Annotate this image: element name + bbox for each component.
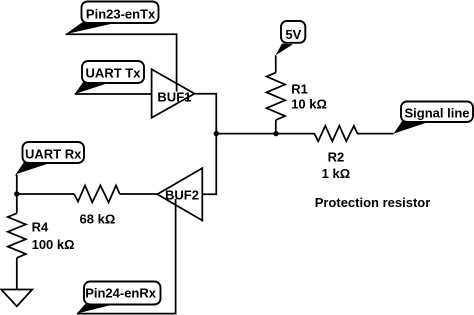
svg-text:10 kΩ: 10 kΩ [291, 97, 327, 112]
net flag Pin23-enTx [66, 2, 159, 35]
svg-text:Protection resistor: Protection resistor [315, 195, 431, 210]
wire 5V flag to R1 top [275, 55, 277, 72]
wire R1 bottom to node A rail [275, 120, 277, 134]
net flag UART Rx [16, 142, 84, 174]
resistor R4 100k zigzag [8, 213, 26, 258]
svg-text:R1: R1 [291, 81, 308, 96]
wire node A down to BUF2 input [202, 134, 216, 195]
svg-text:R2: R2 [328, 150, 345, 165]
node B junction dot [14, 191, 19, 196]
svg-text:Pin24-enRx: Pin24-enRx [85, 286, 157, 301]
wire BUF2 output to 68k resistor [120, 193, 158, 195]
wire net enTx: flag to BUF1 enable [66, 34, 177, 91]
net flag 5V [276, 21, 306, 55]
resistor R2 1k zigzag [314, 126, 357, 141]
wire BUF2 enable down to bottom rail [77, 199, 176, 314]
svg-text:1 kΩ: 1 kΩ [322, 166, 351, 181]
wire 68k resistor to node B [17, 193, 74, 195]
ground [1, 290, 32, 307]
net flag Pin24-enRx [77, 282, 161, 314]
wire UART Rx flag down through node B to R4 [15, 174, 18, 213]
net flag Signal line [394, 102, 473, 134]
svg-text:68 kΩ: 68 kΩ [80, 212, 116, 227]
svg-text:BUF1: BUF1 [157, 89, 191, 104]
net flag UART Tx [75, 61, 144, 94]
op-amp buffer U2 BUF2 triangle [157, 168, 202, 220]
wire BUF1 output to node A [195, 94, 217, 134]
node junction dot at R1 bottom [273, 131, 278, 136]
wire node A to R2 left [216, 133, 315, 135]
svg-text:UART Rx: UART Rx [25, 147, 82, 162]
svg-text:UART Tx: UART Tx [86, 66, 142, 81]
svg-text:5V: 5V [285, 27, 301, 42]
wire UART Tx to BUF1 input [75, 93, 152, 95]
resistor R1 10k zigzag [267, 73, 286, 120]
svg-text:R4: R4 [32, 220, 49, 235]
svg-text:Signal line: Signal line [404, 106, 469, 121]
op-amp buffer U1 BUF1 triangle [152, 69, 195, 118]
svg-text:BUF2: BUF2 [165, 187, 199, 202]
wire R2 right to Signal line flag [357, 133, 394, 135]
wire R4 bottom to ground [16, 258, 18, 290]
resistor R3 68k zigzag [74, 185, 120, 202]
node A junction dot [214, 131, 219, 136]
svg-text:100 kΩ: 100 kΩ [32, 237, 75, 252]
svg-text:Pin23-enTx: Pin23-enTx [86, 6, 156, 21]
